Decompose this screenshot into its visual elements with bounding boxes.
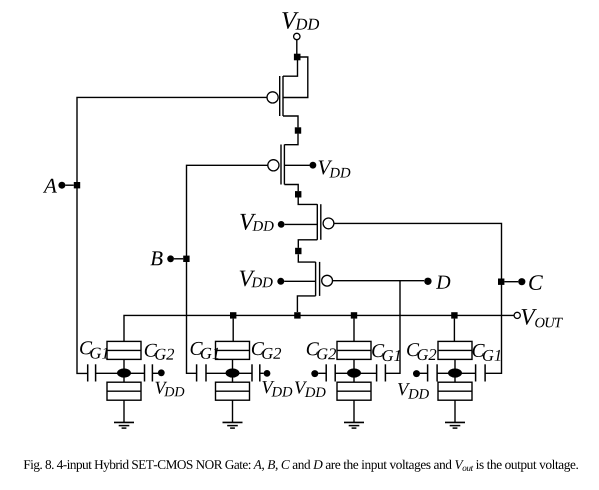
PMOS transistor M4 — [316, 262, 333, 296]
output terminal VOUT — [514, 312, 520, 318]
label VDD SET4 — [398, 383, 429, 399]
wire input A stub — [65, 184, 73, 186]
VDD bias dot SET2 — [264, 370, 271, 377]
wire output to SET3 — [353, 319, 355, 342]
wire input C stub — [504, 281, 518, 283]
VDD bias dot SET1 — [158, 369, 165, 376]
wire input B stub — [174, 258, 183, 260]
ground SET3 — [344, 422, 364, 428]
tunnel junction SET1 top — [107, 341, 141, 359]
input D dot — [424, 278, 431, 285]
tunnel junction SET1 bottom — [107, 382, 141, 400]
tunnel junction SET4 top — [438, 341, 472, 359]
wire M1 source — [283, 60, 298, 76]
label B — [150, 251, 162, 265]
tunnel junction SET2 top — [216, 341, 250, 359]
capacitor plates right SET3 — [377, 364, 386, 381]
ground SET4 — [445, 422, 465, 428]
wire M4 drain — [297, 296, 315, 312]
junction M2 drain / M3 source — [295, 191, 301, 197]
capacitor plates left SET3 — [326, 364, 335, 381]
wire SET3 to ground — [353, 400, 355, 422]
label VDD SET1 — [155, 382, 184, 397]
label VOUT — [522, 309, 563, 327]
junction output line / SET4 — [451, 312, 457, 318]
junction input B — [183, 256, 189, 262]
wire output line — [124, 315, 514, 341]
capacitor plates left SET4 — [428, 364, 438, 381]
junction output line / SET2 — [230, 312, 236, 318]
PMOS transistor M3 — [317, 204, 334, 240]
VDD bias dot M4 — [277, 278, 284, 285]
wire SET1 upper island — [123, 359, 125, 368]
label C_G right SET3 — [372, 344, 400, 361]
junction input C — [498, 279, 504, 285]
PMOS transistor M1 — [267, 76, 283, 116]
input A dot — [58, 182, 65, 189]
island SET4 — [448, 368, 462, 377]
label C_G left SET4 — [407, 343, 436, 360]
label C_G left SET3 — [307, 342, 336, 359]
capacitor plates right SET2 — [252, 364, 260, 381]
island SET3 — [347, 368, 361, 377]
wire SET2 upper island — [232, 359, 234, 368]
caption — [24, 460, 578, 472]
wire cap to island SET2 — [206, 372, 226, 374]
capacitor plates right SET4 — [476, 364, 486, 381]
wire M3 gate / input C line — [334, 223, 502, 373]
wire output to SET2 — [232, 319, 234, 342]
label C_G left SET1 — [80, 341, 108, 358]
wire input D line — [386, 281, 400, 374]
wire M2 source — [284, 134, 298, 145]
junction input A — [74, 182, 80, 188]
wire SET1 lower island — [123, 378, 125, 383]
wire M3 drain — [298, 240, 317, 248]
label VDD supply — [282, 12, 319, 29]
wire SET4 to ground — [454, 400, 456, 422]
wire M2 bulk — [284, 164, 309, 166]
PMOS transistor M2 — [268, 145, 285, 185]
wire cap to island SET1 — [96, 372, 118, 374]
wire output to SET4 — [453, 319, 455, 342]
label VDD SET2 — [262, 381, 292, 396]
tunnel junction SET3 bottom — [337, 382, 371, 400]
label A — [43, 179, 57, 193]
label C — [529, 275, 543, 290]
wire M2 gate / input B line — [187, 165, 268, 373]
capacitor plates left SET1 — [88, 364, 96, 381]
wire M1 drain — [283, 116, 298, 127]
label VDD SET3 — [295, 382, 326, 398]
label C_G right SET1 — [145, 344, 174, 360]
label C_G right SET4 — [473, 344, 501, 361]
ground SET1 — [114, 422, 134, 428]
label C_G left SET2 — [191, 342, 219, 359]
wire island to cap SET1 — [131, 372, 145, 374]
junction output line / SET3 — [351, 312, 357, 318]
VDD bias dot SET4 — [413, 370, 420, 377]
junction M3 drain / M4 source — [295, 248, 301, 254]
capacitor plates right SET1 — [145, 364, 153, 381]
wire VDD dot to cap SET4 — [420, 372, 428, 374]
wire M1 gate / input A line — [77, 97, 267, 373]
wire SET2 to ground — [232, 400, 234, 422]
wire M4 source — [298, 254, 315, 262]
wire M3 source — [298, 198, 317, 205]
VDD bias dot SET3 — [311, 370, 318, 377]
wire M1 bulk loop — [283, 57, 308, 98]
wire M2 drain — [284, 185, 298, 192]
wire VDD dot to cap SET3 — [318, 372, 326, 374]
wire SET3 lower island — [353, 378, 355, 383]
VDD bias dot M2 — [310, 162, 317, 169]
wire M4 bulk — [284, 280, 315, 282]
wire cap to island SET3 — [335, 372, 347, 374]
label D — [436, 276, 450, 289]
capacitor plates left SET2 — [197, 364, 206, 381]
ground SET2 — [223, 422, 243, 428]
tunnel junction SET3 top — [337, 341, 371, 359]
wire cap to island SET4 — [437, 372, 448, 374]
junction M1 drain / M2 source — [295, 127, 301, 133]
junction M1 source/bulk — [294, 54, 301, 61]
label C_G right SET2 — [252, 342, 281, 359]
wire SET3 upper island — [353, 359, 355, 368]
wire cap to VDD dot SET1 — [152, 372, 158, 374]
wire island to cap SET2 — [239, 372, 252, 374]
wire island to cap SET4 — [462, 372, 476, 374]
wire island to cap SET3 — [361, 372, 377, 374]
wire M3 bulk — [285, 223, 318, 225]
wire SET1 to ground — [123, 400, 125, 422]
tunnel junction SET4 bottom — [438, 382, 472, 400]
wire SET4 upper island — [454, 359, 456, 368]
tunnel junction SET2 bottom — [216, 382, 250, 400]
wire SET4 lower island — [454, 378, 456, 383]
label VDD M3 — [240, 214, 273, 231]
label VDD M4 — [240, 271, 273, 288]
wire supply to junction — [296, 40, 298, 54]
island SET1 — [117, 368, 131, 377]
island SET2 — [226, 368, 240, 377]
label VDD M2 — [319, 161, 351, 178]
wire SET2 lower island — [232, 378, 234, 383]
wire M4 gate to input D — [333, 280, 425, 282]
VDD supply terminal — [294, 33, 300, 39]
input C dot — [518, 278, 525, 285]
input B dot — [167, 255, 174, 262]
junction M4 drain on output line — [294, 312, 300, 318]
VDD bias dot M3 — [278, 221, 285, 228]
wire cap to VDD dot SET2 — [260, 372, 264, 374]
